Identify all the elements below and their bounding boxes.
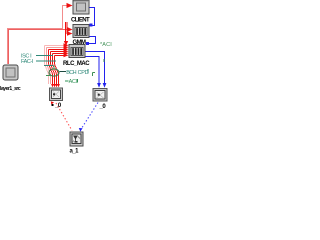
wire: statistic GMM to rx (blue) [89, 37, 96, 44]
blue arrows into r_0 top [97, 83, 106, 88]
blue endpoint square at GMM top right [90, 24, 93, 27]
teal label FAC with tick line [21, 59, 56, 66]
radio link: r_0 to antenna (blue dotted) [81, 103, 99, 131]
wire fan: RLC_MAC left inputs / outputs to t_0 [45, 45, 67, 84]
arrow into GMM lower [67, 31, 73, 36]
teal label SCC with tick line [21, 54, 53, 60]
wire: stream pair GMM - RLC_MAC (bright red) [66, 22, 70, 42]
wire: statistic RLC_MAC to rx (blue) [85, 52, 105, 86]
module CLIENT icon [73, 1, 89, 15]
arrow into GMM upper [67, 27, 73, 32]
svg-text:FAC-I: FAC-I [21, 59, 34, 65]
arrows down into t_0 top [51, 84, 60, 87]
svg-text:CLIENT: CLIENT [71, 18, 90, 24]
arrows into RLC_MAC left edge [64, 43, 69, 57]
blue endpoint square at RLC_MAC top right [86, 42, 89, 45]
svg-text:layer1_src: layer1_src [0, 86, 21, 92]
label t_0 [52, 104, 54, 106]
wire: statistic CLIENT to GMM (blue, right side) [89, 8, 95, 26]
green ellipse annotation over bus [49, 69, 59, 76]
svg-text:RLC_MAC: RLC_MAC [63, 61, 90, 67]
svg-text:ACI: ACI [69, 79, 78, 85]
svg-text:CPD: CPD [78, 70, 89, 76]
module RLC_MAC icon (queue) [69, 45, 85, 58]
teal text ACI [65, 80, 68, 82]
svg-text:a_1: a_1 [70, 149, 80, 155]
radio link: t_0 to antenna (red dotted) [56, 103, 72, 131]
module a_1 icon (antenna) [70, 132, 83, 146]
red mark at t_0 bottom [51, 101, 54, 104]
module t_0 icon (radio transmitter) [50, 88, 63, 101]
arrow into CLIENT [67, 3, 73, 8]
green line into ellipse [46, 75, 52, 77]
small green tick near rx [93, 73, 96, 77]
module layer1_src icon [3, 65, 18, 80]
wire: packet stream layer1_src to CLIENT (salmon bus) [8, 6, 71, 65]
teal text BCH CPD [59, 71, 66, 73]
svg-text:_0: _0 [54, 103, 62, 109]
svg-text:BCH: BCH [66, 70, 76, 76]
module GMM icon (queue) [73, 25, 89, 38]
svg-text:*ACI: *ACI [100, 42, 112, 48]
svg-text:_0: _0 [99, 104, 107, 110]
blue arrow into antenna top [79, 128, 83, 132]
arrow down into RLC_MAC top [64, 41, 68, 46]
module r_0 icon (radio receiver) [93, 89, 107, 102]
